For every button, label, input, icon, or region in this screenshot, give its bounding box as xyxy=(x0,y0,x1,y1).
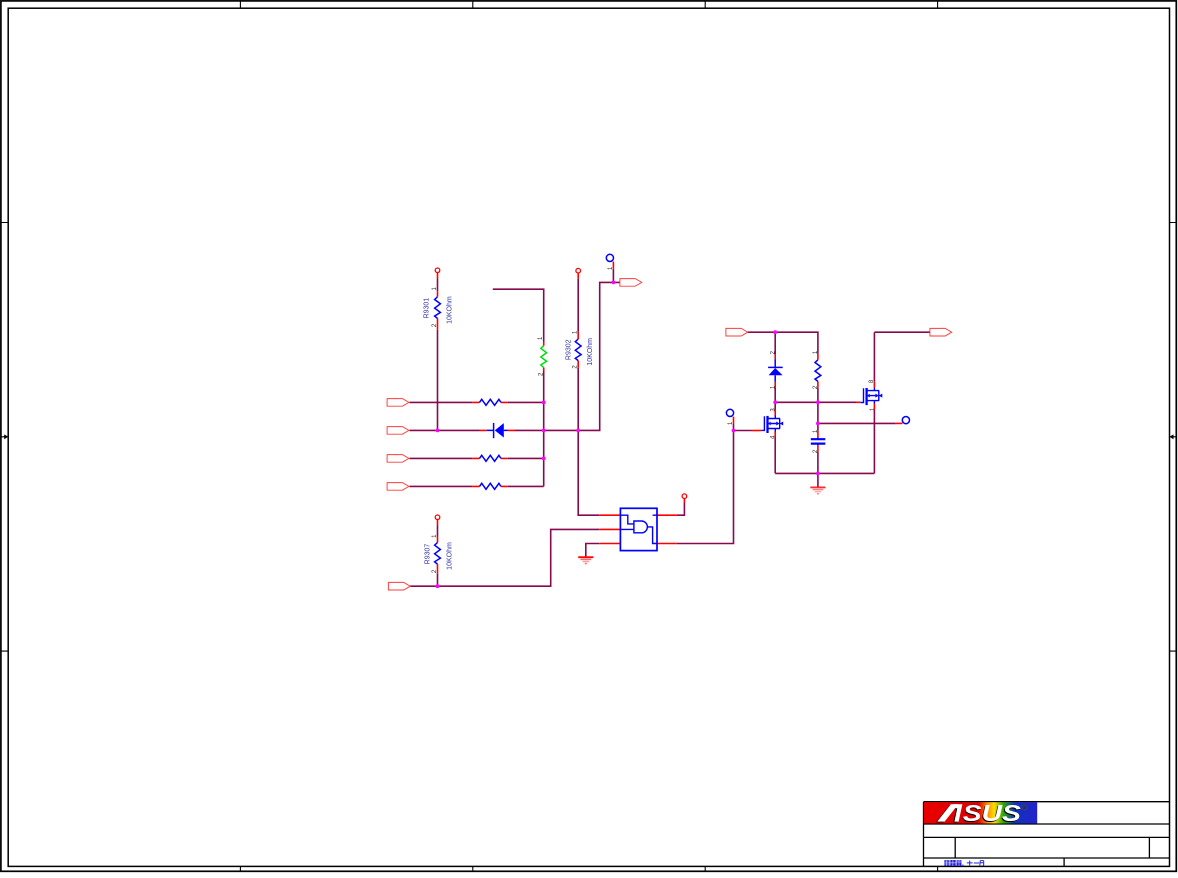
svg-text:10KOhm: 10KOhm xyxy=(447,542,454,570)
svg-text:R: R xyxy=(1023,806,1026,810)
svg-text:R9302: R9302 xyxy=(565,339,572,360)
svg-text:SUS: SUS xyxy=(963,800,1022,826)
svg-text:10KOhm: 10KOhm xyxy=(587,338,594,366)
svg-text:R9301: R9301 xyxy=(423,298,430,319)
svg-text:10KOhm: 10KOhm xyxy=(447,296,454,324)
svg-text:R9307: R9307 xyxy=(425,544,432,565)
